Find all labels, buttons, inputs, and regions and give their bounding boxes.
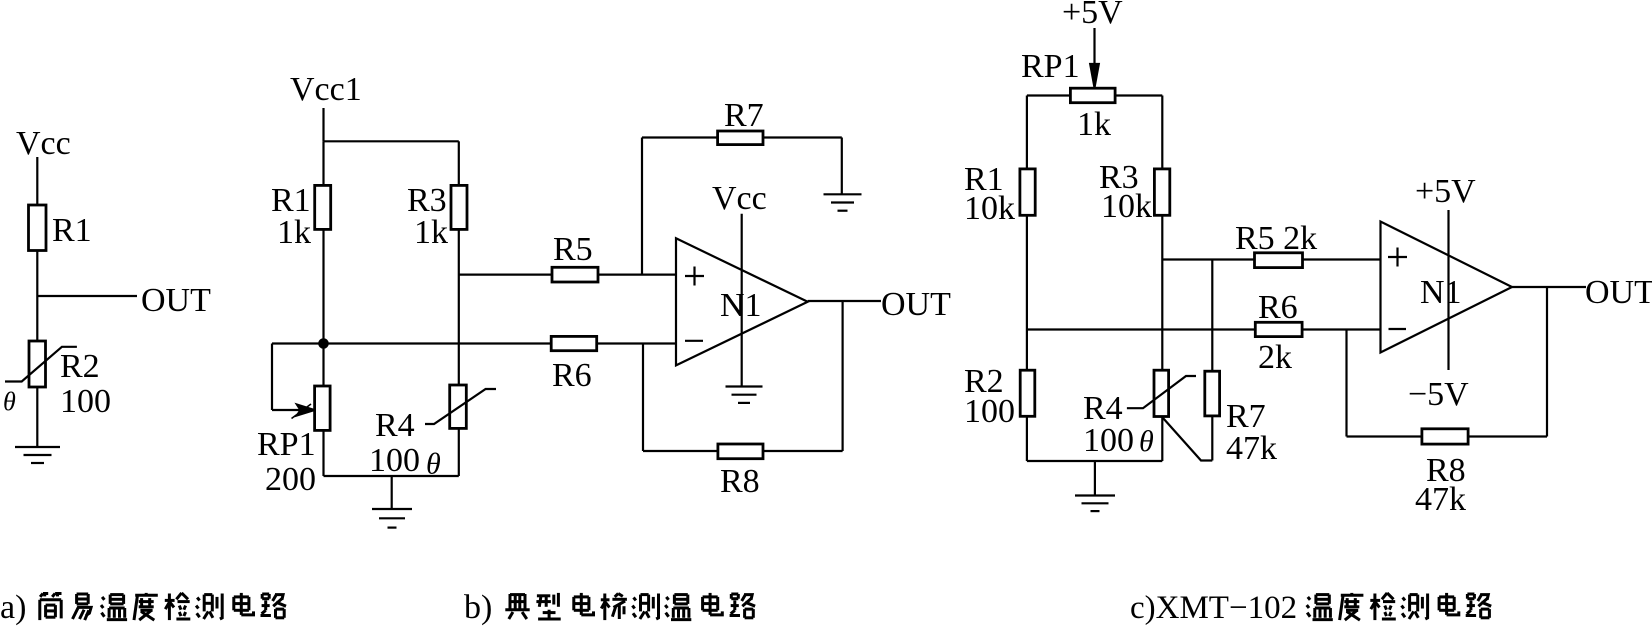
wire R5 to opamp (c): [1303, 258, 1381, 260]
svg-text:R5: R5: [553, 231, 593, 268]
svg-text:R8: R8: [720, 463, 760, 500]
resistor R8 (circuit c): [1422, 429, 1468, 444]
label R1 value 1k (b): [277, 214, 311, 251]
svg-text:R7: R7: [724, 97, 764, 134]
resistor R6 (circuit c): [1255, 322, 1302, 336]
svg-text:−5V: −5V: [1408, 376, 1469, 413]
resistor R7 (circuit c): [1205, 371, 1220, 416]
svg-text:R1: R1: [52, 212, 92, 249]
label RP1 (b): [257, 426, 316, 463]
minus sign (c): [1389, 328, 1407, 330]
label R1 value 10k (c): [964, 190, 1015, 227]
arrow wiper into RP1 (b): [292, 404, 315, 419]
wire R6 to opamp (c): [1302, 328, 1380, 330]
svg-text:a): a): [0, 589, 26, 626]
resistor R2 (circuit c): [1020, 370, 1035, 416]
resistor R3 (circuit b): [451, 185, 467, 229]
resistor R7 (circuit b): [718, 131, 763, 145]
wire R8 bottom right (c): [1468, 435, 1547, 437]
ground (circuit c): [1075, 496, 1115, 512]
svg-text:1k: 1k: [1077, 106, 1111, 143]
wire R2 to ground (a): [36, 387, 38, 447]
svg-text:47k: 47k: [1226, 430, 1277, 467]
thermistor R2 (circuit a): [5, 341, 77, 387]
label R8 (b): [720, 463, 760, 500]
svg-text:47k: 47k: [1415, 481, 1466, 518]
svg-text:θ: θ: [426, 448, 441, 481]
wire R3 to R4 (b): [458, 229, 460, 385]
label theta (b): [426, 448, 441, 481]
wire output (c): [1512, 286, 1586, 288]
resistor R8 (circuit b): [718, 444, 763, 459]
potentiometer RP1 (circuit b): [315, 386, 331, 430]
wire R8 bottom right (b): [763, 450, 843, 452]
net -5V label (c): [1408, 376, 1469, 413]
label R6 (b): [552, 357, 592, 394]
caption c hanzi 温度检测电路: [1307, 593, 1492, 620]
label R4 value 100 (c): [1083, 422, 1134, 459]
svg-text:1k: 1k: [414, 214, 448, 251]
label R7 (b): [724, 97, 764, 134]
svg-text:OUT: OUT: [881, 286, 951, 323]
ground (circuit b bridge): [372, 509, 412, 528]
svg-text:1k: 1k: [277, 214, 311, 251]
wire top to R1 (c): [1026, 96, 1028, 169]
wire noninverting line (b): [459, 274, 552, 276]
svg-text:2k: 2k: [1258, 339, 1292, 376]
wire top to R3 (b): [458, 141, 460, 185]
svg-text:200: 200: [265, 461, 316, 498]
wire R8 to output (b): [841, 301, 843, 451]
resistor R1 (circuit a): [29, 205, 47, 251]
potentiometer RP1 (circuit c): [1070, 88, 1115, 103]
svg-text:RP1: RP1: [257, 426, 316, 463]
wire wiper arm (b): [272, 409, 303, 411]
svg-text:RP1: RP1: [1021, 48, 1080, 85]
wire top to R1 (b): [322, 141, 324, 185]
wire +5V arrow shaft (c): [1093, 28, 1095, 70]
wire Vcc to R1 (a): [36, 157, 38, 205]
wire node to OUT (a): [37, 295, 137, 297]
label R5 (b): [553, 231, 593, 268]
label RP1 value 1k (c): [1077, 106, 1111, 143]
label R3 (b): [407, 182, 447, 219]
label R5 2k (c): [1235, 220, 1317, 257]
wire R8 to output (c): [1546, 287, 1548, 437]
wire R5 to opamp (b): [598, 274, 676, 276]
thermistor R4 (circuit c): [1127, 370, 1196, 416]
svg-text:100: 100: [964, 393, 1015, 430]
wire output (b): [808, 300, 881, 302]
wire inverting feedback vertical (b): [642, 344, 644, 452]
label OUT (c): [1585, 274, 1652, 311]
caption a hanzi 简易温度检测电路: [40, 593, 286, 620]
wire R1 to RP1 (b): [322, 229, 324, 386]
resistor R5 (circuit c): [1255, 253, 1303, 268]
svg-text:θ: θ: [1139, 425, 1154, 458]
wire R4 to bottom (b): [458, 428, 460, 476]
wire feedback vertical left (c): [1345, 330, 1347, 437]
plus sign (b): [685, 267, 704, 286]
label R2 value 100 (a): [60, 383, 111, 420]
thermistor R4 (circuit b): [425, 385, 496, 428]
wire ground stub (b): [391, 476, 393, 509]
svg-text:R4: R4: [375, 407, 415, 444]
caption b hanzi 典型电桥测温电路: [505, 593, 755, 620]
label R1 (b): [271, 182, 311, 219]
wire noninverting line (c): [1162, 258, 1254, 260]
svg-text:100: 100: [369, 442, 420, 479]
label R1 (c): [964, 161, 1004, 198]
label R7 (c): [1226, 398, 1266, 435]
wire ground stub (c): [1094, 461, 1096, 496]
wire wiper drop (b): [271, 344, 273, 411]
net Vcc1 label (b): [290, 71, 362, 108]
svg-text:Vcc: Vcc: [16, 125, 71, 162]
svg-text:+5V: +5V: [1062, 0, 1123, 31]
wire RP1 to bottom (b): [322, 430, 324, 476]
resistor R6 (circuit b): [551, 336, 597, 350]
node A junction dot (b): [319, 339, 327, 347]
label R3 value 10k (c): [1101, 188, 1152, 225]
svg-text:Vcc1: Vcc1: [290, 71, 362, 108]
label RP1 (c): [1021, 48, 1080, 85]
svg-text:θ: θ: [3, 387, 16, 416]
label R2 (c): [964, 363, 1004, 400]
svg-text:R5 2k: R5 2k: [1235, 220, 1317, 257]
caption a latin: [0, 589, 26, 626]
svg-text:b): b): [464, 589, 492, 626]
net Vcc label opamp (b): [712, 180, 767, 217]
wire R7 top right (b): [763, 136, 842, 138]
wire R6 to opamp (b): [597, 342, 676, 344]
caption c latin: [1130, 590, 1297, 626]
ground (circuit a): [15, 447, 60, 463]
wire R7 left vertical (b): [641, 138, 643, 275]
label R4 (b): [375, 407, 415, 444]
label RP1 value 200 (b): [265, 461, 316, 498]
wire R7 to ground (b): [841, 138, 843, 195]
resistor R3 (circuit c): [1154, 169, 1169, 215]
wire top to R3 (c): [1161, 96, 1163, 169]
label R1 (a): [52, 212, 92, 249]
wire R4 to bottom (c): [1161, 417, 1163, 462]
wire Vcc1 lead (b): [322, 108, 324, 141]
plus sign (c): [1388, 248, 1407, 267]
svg-text:R6: R6: [1258, 289, 1298, 326]
net +5V label opamp (c): [1415, 173, 1476, 210]
arrow +5V into RP1 (c): [1090, 64, 1099, 88]
label N1 (b): [720, 287, 762, 324]
svg-text:10k: 10k: [964, 190, 1015, 227]
wire bottom rail (b): [324, 475, 459, 477]
svg-text:N1: N1: [1420, 274, 1462, 311]
minus sign (b): [685, 340, 703, 342]
wire R3 to R4 (c): [1161, 215, 1163, 370]
svg-text:OUT: OUT: [141, 282, 211, 319]
label R2 value 100 (c): [964, 393, 1015, 430]
label OUT (a): [141, 282, 211, 319]
svg-text:100: 100: [60, 383, 111, 420]
wire top rail (b): [324, 140, 459, 142]
wire top rail (c): [1027, 94, 1162, 96]
op-amp N1 (circuit b): [676, 238, 808, 365]
resistor R5 (circuit b): [552, 267, 598, 282]
svg-text:OUT: OUT: [1585, 274, 1652, 311]
label R4 (c): [1083, 390, 1123, 427]
wire R1 to R2 through OUT node (a): [36, 251, 38, 342]
ground (R7, circuit b): [824, 194, 862, 210]
resistor R1 (circuit b): [315, 185, 331, 229]
label R6 value 2k (c): [1258, 339, 1292, 376]
label R7 value 47k (c): [1226, 430, 1277, 467]
wire R8 bottom left (b): [643, 450, 718, 452]
caption b latin: [464, 589, 492, 626]
label theta (a): [3, 387, 16, 416]
wire R1 to R2 (c): [1026, 215, 1028, 370]
svg-text:R2: R2: [60, 348, 100, 385]
resistor R1 (circuit c): [1020, 169, 1035, 215]
label R4 value 100 (b): [369, 442, 420, 479]
svg-text:R6: R6: [552, 357, 592, 394]
op-amp N1 (circuit c): [1381, 222, 1513, 353]
label R3 value 1k (b): [414, 214, 448, 251]
svg-text:100: 100: [1083, 422, 1134, 459]
label R8 (c): [1426, 452, 1466, 489]
wire Vcc supply lead (b): [741, 214, 743, 387]
wire R8 bottom left (c): [1347, 435, 1422, 437]
label N1 (c): [1420, 274, 1462, 311]
net +5V label (c): [1062, 0, 1123, 31]
wire R7 branch vertical (c): [1211, 260, 1213, 372]
label R8 value 47k (c): [1415, 481, 1466, 518]
label R6 (c): [1258, 289, 1298, 326]
wire inverting line left (b): [272, 342, 551, 344]
svg-text:+5V: +5V: [1415, 173, 1476, 210]
net Vcc label (circuit a): [16, 125, 71, 162]
wire supply lead (c): [1447, 210, 1449, 370]
svg-text:10k: 10k: [1101, 188, 1152, 225]
wire R2 to bottom (c): [1026, 416, 1028, 461]
label theta (c): [1139, 425, 1154, 458]
svg-text:c)XMT−102: c)XMT−102: [1130, 590, 1297, 626]
wire bottom rail (c): [1027, 460, 1162, 462]
wire R7 bottom lead (c): [1163, 416, 1212, 461]
ground (op-amp, circuit b): [726, 387, 763, 403]
wire R7 top left (b): [642, 136, 718, 138]
label R3 (c): [1099, 159, 1139, 196]
svg-text:Vcc: Vcc: [712, 180, 767, 217]
wire inverting line (c): [1027, 328, 1255, 330]
label OUT (b): [881, 286, 951, 323]
label R2 (a): [60, 348, 100, 385]
